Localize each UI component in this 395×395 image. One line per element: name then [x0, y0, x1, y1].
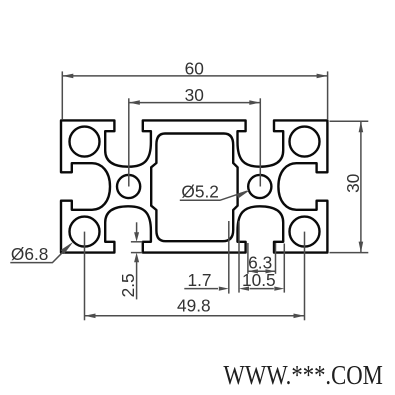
profile outline (aluminum extrusion 3060 cross-section)	[61, 120, 327, 252]
dim 30 top: extension lines to hole centers	[128, 98, 130, 186]
dim 2.5: ticks	[131, 241, 142, 243]
leader arrow Ø6.8	[61, 242, 74, 254]
svg-text:6.3: 6.3	[248, 252, 272, 272]
svg-text:2.5: 2.5	[118, 273, 138, 297]
dim 49.8: line	[85, 315, 305, 317]
center hole left (Ø5.2)	[117, 175, 140, 198]
dim 60: line	[62, 75, 327, 77]
svg-text:1.7: 1.7	[188, 270, 212, 290]
svg-text:WWW.***.COM: WWW.***.COM	[223, 359, 383, 390]
6.3 arrows	[248, 269, 258, 273]
leader Ø5.2	[180, 191, 247, 200]
dim 6.3: extension lines	[247, 243, 249, 274]
arrowheads	[61, 74, 364, 319]
dim 30 top: line	[129, 102, 260, 104]
leader Ø6.8	[10, 244, 70, 262]
leader arrow Ø5.2	[237, 190, 250, 198]
dimension texts	[11, 59, 363, 316]
central cavity	[151, 134, 237, 242]
center hole right (Ø5.2)	[248, 175, 271, 198]
dim 6.3: line	[248, 270, 276, 272]
svg-text:30: 30	[343, 174, 363, 193]
30 top arrows	[129, 100, 140, 105]
dim 49.8: extension lines from corner hole centers	[84, 232, 86, 321]
49.8 arrows	[85, 314, 96, 319]
dim 10.5: line	[250, 288, 274, 290]
svg-text:Ø6.8: Ø6.8	[11, 244, 48, 264]
dim 30 right: extension lines	[330, 120, 369, 122]
corner hole bottom-left (Ø6.8)	[70, 217, 100, 247]
dim 2.5: shafts	[136, 222, 138, 233]
dim 60: extension lines	[61, 71, 63, 119]
corner hole top-left (Ø6.8)	[70, 127, 100, 157]
dim 30 right: line	[360, 121, 362, 252]
30 right arrows	[359, 121, 364, 132]
svg-text:30: 30	[185, 85, 204, 105]
svg-text:49.8: 49.8	[177, 295, 211, 315]
dimension lines	[10, 71, 368, 320]
2.5 arrows	[134, 232, 139, 242]
svg-text:60: 60	[185, 59, 204, 79]
10.5 right arrow	[274, 287, 284, 291]
corner hole bottom-right (Ø6.8)	[290, 217, 320, 247]
outer boundary with T-slots	[61, 120, 327, 252]
svg-text:10.5: 10.5	[242, 270, 276, 290]
60 arrows	[62, 74, 73, 79]
dim 1.7: shelf line	[184, 288, 218, 290]
dim 1.7/10.5 extension lines	[228, 221, 230, 294]
svg-text:Ø5.2: Ø5.2	[181, 181, 218, 201]
corner hole top-right (Ø6.8)	[290, 127, 320, 157]
1.7 arrows	[219, 287, 229, 291]
